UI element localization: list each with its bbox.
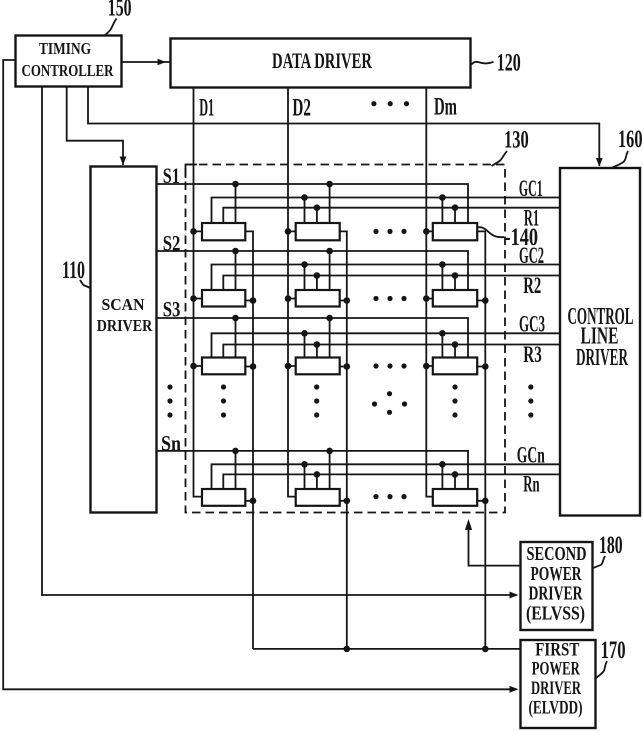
control line GC1 xyxy=(212,176,561,223)
second power driver box U180 xyxy=(521,542,593,630)
svg-text:150: 150 xyxy=(108,0,132,21)
pixel P31 xyxy=(202,358,245,375)
svg-text:POWER: POWER xyxy=(532,660,580,680)
ELVDD column line m xyxy=(477,231,485,649)
ELVDD column line 1 xyxy=(245,231,253,649)
svg-text:180: 180 xyxy=(599,532,623,559)
scan line S3 xyxy=(157,297,469,358)
svg-text:DRIVER: DRIVER xyxy=(97,316,153,335)
pixel Pn1 xyxy=(202,489,245,506)
label 170 xyxy=(596,637,626,678)
junction dots on S lines xyxy=(232,181,333,455)
GC/R tap verticals column 2 xyxy=(305,198,317,490)
data taps into pixels xyxy=(194,231,433,366)
svg-text:S2: S2 xyxy=(163,230,181,255)
svg-text:GC3: GC3 xyxy=(519,312,545,337)
label 160 xyxy=(613,126,643,167)
control line GCn xyxy=(212,443,561,490)
pixel P12 xyxy=(296,223,340,240)
wire: timing controller to second power driver xyxy=(42,87,519,598)
svg-text:DRIVER: DRIVER xyxy=(531,679,581,699)
wire: timing controller to control line driver xyxy=(88,87,603,167)
label 150 xyxy=(105,0,132,35)
svg-text:DRIVER: DRIVER xyxy=(529,583,583,605)
svg-text:130: 130 xyxy=(504,126,529,153)
label 110 xyxy=(62,257,90,288)
pixel Pnm xyxy=(433,489,477,506)
svg-text:TIMING: TIMING xyxy=(39,39,91,58)
svg-text:R3: R3 xyxy=(523,342,542,367)
svg-text:S1: S1 xyxy=(163,163,180,188)
ELVSS feed from second power driver xyxy=(465,519,521,566)
svg-text:DRIVER: DRIVER xyxy=(576,344,628,371)
svg-text:160: 160 xyxy=(618,126,643,153)
wire: timing controller to first power driver (left outer) xyxy=(3,60,518,693)
control line R1 xyxy=(223,206,560,231)
control line R3 xyxy=(223,342,560,367)
first power driver box U170 xyxy=(521,640,596,728)
timing controller box U150 xyxy=(16,36,122,87)
pixel P3m xyxy=(433,358,477,375)
pixel array dashed border 130 xyxy=(186,165,198,179)
svg-text:R2: R2 xyxy=(523,273,541,298)
junction dots on ELVDD columns xyxy=(250,297,489,504)
junction dots on ELVDD rail xyxy=(344,646,489,653)
svg-text:SCAN: SCAN xyxy=(102,295,146,314)
pixel P22 xyxy=(296,290,340,307)
scan tap verticals column 1 xyxy=(235,184,237,489)
svg-text:120: 120 xyxy=(497,50,521,77)
svg-text:Dm: Dm xyxy=(434,94,457,121)
svg-text:Rn: Rn xyxy=(523,472,539,497)
wire: timing controller to scan driver xyxy=(67,87,127,165)
svg-text:GCn: GCn xyxy=(517,443,545,468)
vertical ellipsis dots xyxy=(167,384,533,417)
svg-text:GC1: GC1 xyxy=(519,176,543,201)
control line GC2 xyxy=(212,243,561,290)
control line driver box U160 xyxy=(560,168,640,516)
scan line S1 xyxy=(157,163,469,223)
data line D2 xyxy=(288,88,311,497)
pixel P32 xyxy=(296,358,340,375)
svg-text:DATA DRIVER: DATA DRIVER xyxy=(272,48,373,73)
pixel Pn2 xyxy=(296,489,340,506)
horizontal ellipsis dots in array rows xyxy=(373,229,406,499)
ellipsis between D2 and Dm xyxy=(371,101,409,106)
pixel P2m xyxy=(433,290,477,307)
pixel P1m xyxy=(433,223,477,240)
junction dots on data lines xyxy=(190,228,429,369)
svg-text:110: 110 xyxy=(62,257,85,284)
pixel P21 xyxy=(202,290,245,307)
control line R2 xyxy=(223,273,560,298)
diamond ellipsis dots center xyxy=(372,391,407,415)
svg-text:S3: S3 xyxy=(163,297,181,322)
svg-text:-140: -140 xyxy=(505,224,539,251)
svg-text:D1: D1 xyxy=(199,95,214,122)
scan line S2 xyxy=(157,230,469,290)
junction dots on R lines xyxy=(314,204,459,477)
data line D1 xyxy=(194,88,215,497)
control line Rn xyxy=(223,472,560,497)
svg-text:Sn: Sn xyxy=(161,430,181,455)
data driver box U120 xyxy=(171,39,471,88)
GC/R tap verticals column m xyxy=(442,198,455,490)
control line GC3 xyxy=(212,312,561,358)
junction dots on GC lines xyxy=(301,194,446,467)
wire: timing controller to data driver xyxy=(122,59,170,65)
svg-text:(ELVDD): (ELVDD) xyxy=(529,699,583,719)
data line Dm xyxy=(426,88,457,497)
scan line Sn xyxy=(157,430,469,489)
label 180 xyxy=(593,532,623,568)
svg-text:FIRST: FIRST xyxy=(535,641,580,661)
svg-text:SECOND: SECOND xyxy=(527,543,587,565)
pixel P11 xyxy=(202,223,245,240)
svg-text:(ELVSS): (ELVSS) xyxy=(526,603,585,625)
svg-text:170: 170 xyxy=(601,637,626,664)
label 140 leader to pixel P1m xyxy=(477,224,538,251)
label 120 xyxy=(472,50,521,77)
ELVDD rail to first power driver xyxy=(253,648,521,650)
scan tap verticals column 2 xyxy=(329,184,331,489)
svg-text:D2: D2 xyxy=(292,95,311,122)
svg-text:CONTROLLER: CONTROLLER xyxy=(22,61,115,80)
label 130 xyxy=(492,126,529,166)
ELVDD column line 2 xyxy=(340,231,347,649)
scan driver box U110 xyxy=(91,167,157,513)
